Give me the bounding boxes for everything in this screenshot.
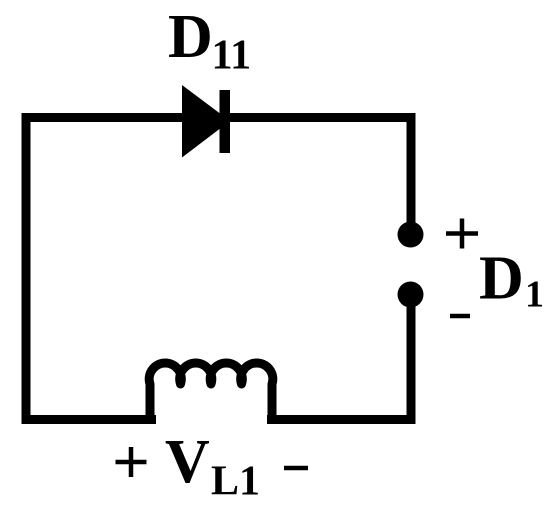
minus sign of VL1 — [284, 466, 308, 471]
node terminal dot + (top) — [398, 222, 424, 248]
wire bottom-right and right-lower segments — [267, 295, 411, 420]
plus sign at top terminal — [446, 219, 478, 249]
svg-text:D: D — [168, 3, 213, 71]
svg-text:L1: L1 — [211, 459, 260, 505]
plus sign of VL1 — [116, 447, 147, 477]
diode D11 triangle (anode) — [182, 85, 230, 158]
wire main loop: right-upper, top, left, bottom-left segments — [26, 118, 411, 420]
inductor L1 coil — [149, 363, 273, 424]
svg-text:V: V — [165, 428, 210, 496]
node terminal dot - (bottom) — [398, 282, 424, 308]
svg-text:D: D — [479, 245, 524, 313]
diode D11 bar (cathode) — [220, 90, 231, 153]
svg-text:11: 11 — [212, 33, 252, 79]
minus sign at bottom terminal — [450, 314, 470, 319]
svg-text:1: 1 — [525, 274, 544, 316]
